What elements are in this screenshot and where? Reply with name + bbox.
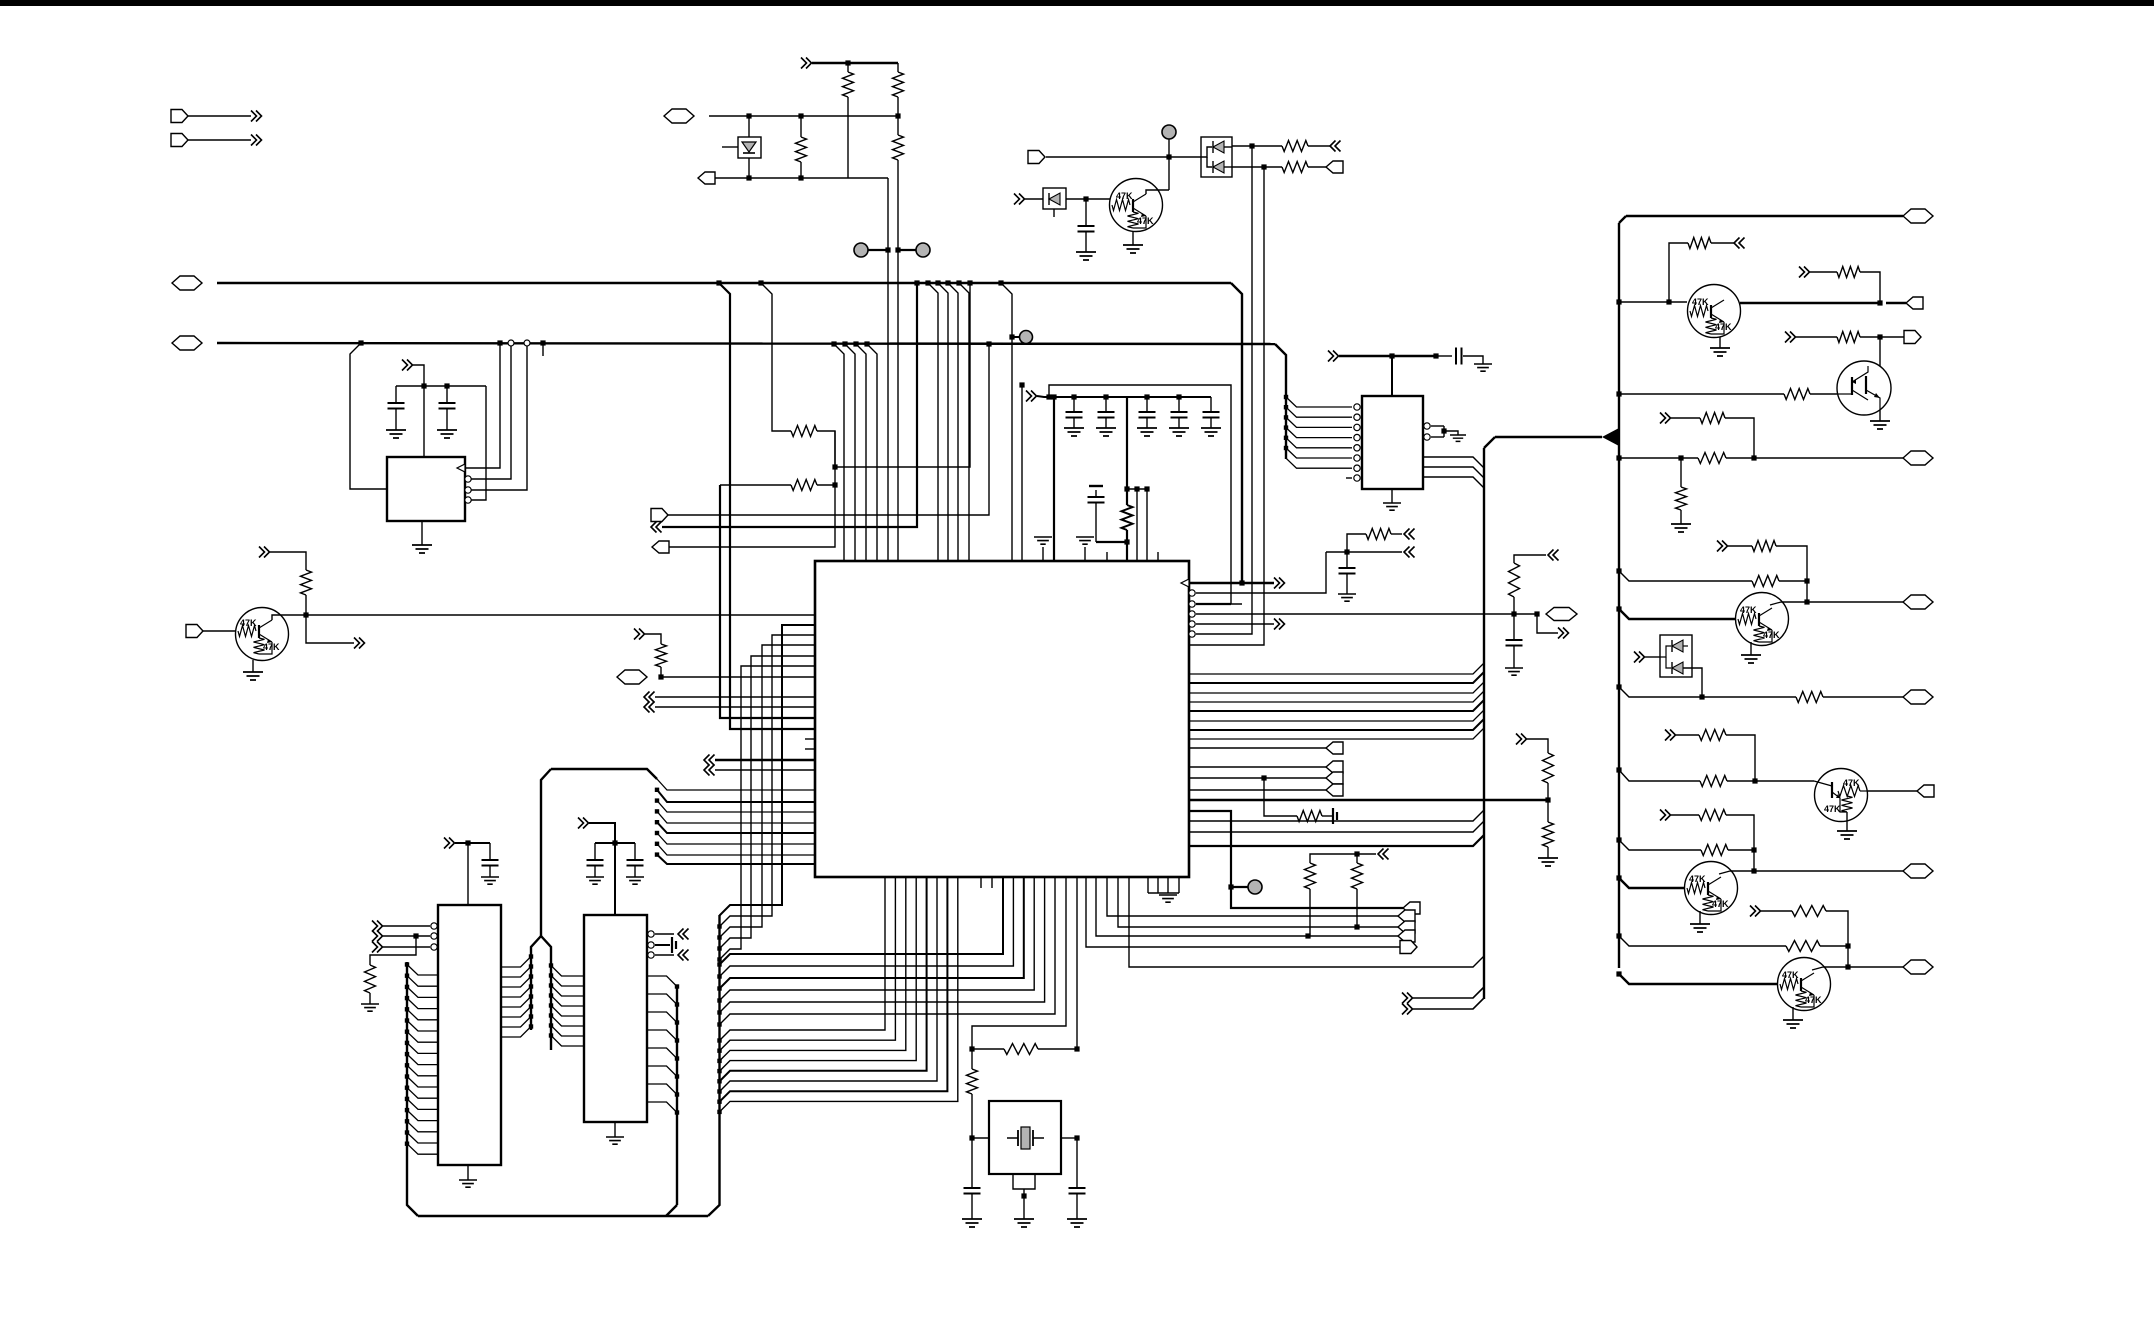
resistor R7 pullup — [259, 547, 270, 558]
connector K8 — [1398, 930, 1415, 942]
connector J16 — [678, 950, 689, 961]
thick link y437 — [1495, 436, 1602, 438]
wire VBAT drop to U3 area — [1231, 283, 1242, 583]
resistor R18 — [370, 936, 416, 965]
wire to chevron — [1537, 614, 1558, 633]
resistor Q5 top — [1717, 541, 1728, 552]
svg-text:47K: 47K — [1824, 804, 1841, 814]
data bus Y split — [541, 769, 551, 936]
sub rail y489 — [1127, 488, 1147, 490]
wire y846 thick to bus — [1189, 835, 1484, 846]
resistor R21 — [1785, 332, 1796, 343]
via TP2 — [916, 243, 930, 257]
top border bar — [0, 0, 2154, 6]
resistor Q5 branch — [1616, 568, 1621, 573]
U1 clock pin — [1181, 579, 1189, 587]
bus 719 vertical — [708, 915, 720, 1216]
svg-text:47K: 47K — [240, 618, 257, 628]
wire row y467 — [832, 464, 837, 469]
via TP4 — [1231, 886, 1248, 888]
resistor Q6 branch base — [1616, 767, 1621, 772]
wire bubble y624 — [1189, 621, 1195, 627]
capacitor C15 — [1456, 348, 1462, 365]
bus stub chevrons — [1402, 993, 1413, 1004]
bus 1484 — [1483, 448, 1485, 999]
wire risers x1137 x1147 — [1136, 489, 1138, 561]
resistor Q7 branch — [1616, 837, 1621, 842]
diode pair D2 box — [1201, 137, 1232, 177]
capacitor C3 — [446, 386, 448, 403]
transistor Q7 — [1616, 875, 1621, 880]
resistor R20 — [1799, 267, 1810, 278]
wire Q1 collector to U1 — [306, 614, 814, 616]
U4 right pin bundle — [501, 957, 531, 968]
IC U4 — [438, 905, 501, 1165]
wire U1 pin y749 stub — [805, 748, 814, 750]
crystal case pin — [1013, 1174, 1035, 1189]
pullup pair rail — [1378, 849, 1389, 860]
wire y947 — [1086, 877, 1400, 947]
capacitor C11 — [1076, 1138, 1078, 1188]
wire riser A — [716, 280, 721, 285]
connector K1 — [1189, 747, 1326, 749]
wire RC y552 — [1326, 551, 1402, 553]
connector P2 — [171, 134, 188, 147]
wire bubble y604 thick — [1189, 601, 1195, 607]
wire y821 to bus — [1189, 810, 1484, 821]
wire U1 pin y739 stub — [805, 738, 814, 740]
net VBAT wire — [172, 276, 202, 290]
via TP3 — [1162, 125, 1176, 139]
wire pin y645 — [1189, 644, 1254, 646]
U3 power rail — [1328, 351, 1339, 362]
resistor R23 — [1347, 534, 1366, 552]
U3 left pin fan from bus — [1284, 395, 1288, 399]
U3 lower right pins to bus — [1423, 457, 1484, 468]
svg-text:47K: 47K — [1740, 605, 1757, 615]
cap row outline wire — [1049, 385, 1242, 604]
U3 right pins to ground — [1424, 423, 1430, 429]
wire y916 — [1107, 877, 1398, 916]
U3 stub pin — [1346, 477, 1352, 479]
wire Q7 collector — [1719, 871, 1730, 874]
resistor R26 pulldown — [1680, 458, 1682, 487]
resistor R8 — [791, 426, 817, 437]
wire bottom bundle group A — [720, 877, 886, 1041]
svg-text:47K: 47K — [1843, 778, 1860, 788]
resistor Q6 top — [1665, 730, 1676, 741]
transistor Q6 — [1815, 769, 1868, 822]
resistor R25 — [1660, 413, 1671, 424]
diode D1 box — [748, 116, 750, 178]
wire J11 — [644, 692, 655, 703]
wire D4 out — [1683, 668, 1702, 697]
power rail chevron — [801, 58, 812, 69]
resistor R1 — [845, 60, 850, 65]
capacitor C2 — [395, 386, 397, 403]
wire U1 left pin bundle — [720, 625, 815, 916]
wire y967 long to bus — [1129, 877, 1484, 967]
rail tap 2 — [672, 937, 676, 953]
resistor Q8 branch — [1616, 933, 1621, 938]
wire D2a to U1 — [1242, 146, 1252, 634]
U5 left pin bundle — [551, 966, 584, 977]
net VDD wire — [172, 336, 202, 350]
ground mid 2 — [1084, 547, 1086, 561]
wire net to U2 left — [358, 340, 363, 345]
U5 right pin bundle — [647, 976, 677, 987]
wire bus fan to U1 left pins — [657, 779, 814, 790]
crystal Y1 — [989, 1101, 1061, 1174]
wire Q3 collector riser — [1666, 299, 1671, 304]
wire U1 right bus group — [1189, 663, 1484, 674]
ground U3 — [1391, 489, 1393, 503]
connector K9 — [1400, 941, 1417, 954]
capacitor C7 — [1176, 394, 1181, 399]
resistor R6 — [1232, 166, 1282, 168]
wire J14 — [704, 765, 715, 776]
resistor R12 divider top — [1516, 734, 1527, 745]
wire XTAL2 — [1076, 877, 1078, 1049]
cap row chevron — [1026, 391, 1037, 402]
transistor Q5 — [1616, 606, 1621, 611]
IC U5 — [584, 915, 647, 1122]
capacitor C5 — [1103, 394, 1108, 399]
ground U5 — [614, 1122, 616, 1137]
capacitor C14 — [634, 843, 636, 860]
wire branch chevron — [306, 615, 354, 643]
transistor Q4 pnp — [1616, 391, 1621, 396]
wire VCC riser 1 — [1053, 397, 1055, 561]
connector out top oval — [1626, 215, 1903, 217]
connector K6 — [1398, 910, 1415, 922]
wire VCC riser 2 — [1126, 397, 1128, 505]
connector J7 wire — [652, 541, 669, 553]
resistor R2 — [897, 63, 899, 72]
IC U2 — [387, 457, 465, 521]
RAM bus top rail — [551, 769, 657, 779]
connector P5 — [1028, 151, 1045, 164]
resistor R22 branch y697 — [1616, 684, 1621, 689]
resistor R9 — [720, 484, 791, 486]
wire D2b to U1 — [1254, 167, 1264, 645]
bus drop to U3 fan — [1275, 344, 1286, 459]
resistor R17 — [971, 1049, 973, 1069]
capacitor C9 — [1095, 490, 1097, 497]
capacitor C1 — [1085, 199, 1087, 226]
wire U3 vcc pin — [1391, 356, 1393, 396]
wire J9 — [651, 522, 662, 533]
U2 clock pin — [457, 464, 465, 472]
bottom bus — [418, 1215, 708, 1217]
transistor Q3 — [1616, 299, 1621, 304]
wire riser B — [758, 280, 763, 285]
wire y800 thick to divider — [1189, 799, 1548, 801]
resistor Q7 top — [1660, 810, 1671, 821]
ground U1 pins — [1147, 877, 1149, 893]
connector P8 wire — [651, 509, 668, 522]
capacitor C8 — [1210, 397, 1212, 412]
wire riser x1022 — [1021, 385, 1023, 561]
transistor Q2 — [1110, 179, 1163, 232]
ground Q5 — [1750, 642, 1752, 655]
ground Q8 — [1792, 1007, 1794, 1020]
connector K4 — [1189, 789, 1326, 791]
transistor Q1 — [236, 608, 289, 661]
capacitor C6 — [1144, 394, 1149, 399]
capacitor C16 — [1513, 614, 1515, 640]
ground Q1 — [252, 660, 254, 672]
connector out right — [1880, 336, 1904, 338]
U1 bottom stub pins — [980, 877, 982, 888]
connector K3 — [1189, 777, 1326, 779]
ground mid 1 — [1042, 547, 1044, 561]
wire riser VBAT end — [1001, 283, 1012, 561]
U5 right control pins — [648, 931, 654, 937]
U4 control pins — [372, 921, 383, 932]
wire Q6 output — [1868, 790, 1917, 792]
ground Q4 — [1879, 410, 1881, 421]
connector K2 — [1189, 766, 1326, 768]
IC U1 — [815, 561, 1189, 877]
diode pair D4 box — [1634, 652, 1645, 663]
wire y927 — [1118, 877, 1398, 927]
wire y832 to bus — [1189, 821, 1484, 832]
ground U4 — [467, 1165, 469, 1180]
pin stubs U1 top — [1106, 552, 1108, 561]
zener chevron — [1014, 194, 1025, 205]
U2 pin wires to net — [465, 476, 471, 482]
wire riser C — [720, 485, 814, 718]
wire y936 — [1096, 877, 1398, 936]
wire zener to Q2 — [1066, 198, 1110, 200]
wire U2 pin to rail — [540, 340, 545, 345]
connector P6 — [186, 625, 203, 638]
connector K7 — [1398, 921, 1415, 933]
wire Q3 output — [1740, 302, 1880, 304]
svg-text:47K: 47K — [1782, 970, 1799, 980]
resistor R15 — [1352, 863, 1363, 889]
wire risers from VDD net — [831, 341, 836, 346]
capacitor C13 — [594, 843, 596, 860]
U4 left pin bundle — [407, 965, 438, 976]
ground Q3 — [1719, 337, 1721, 348]
bus Y wedge — [1602, 428, 1619, 446]
U4 power pin — [444, 838, 455, 849]
U5 power pin — [578, 818, 589, 829]
resistor R5 — [1232, 145, 1282, 147]
supply chevron — [402, 360, 413, 371]
left RAM bus — [407, 962, 418, 1216]
zener D3 box — [1043, 188, 1066, 209]
transistor Q8 — [1616, 971, 1621, 976]
wire bottom bundle group B — [720, 877, 1004, 965]
resistor R13 divider bottom — [1547, 800, 1549, 822]
connector P10 with pullup R10 — [634, 629, 645, 640]
capacitor C12 — [489, 843, 491, 860]
ground — [1132, 231, 1134, 245]
wire Q5 collector — [1770, 602, 1781, 605]
ground — [1076, 252, 1096, 260]
wire J12 — [644, 702, 655, 713]
wire XTAL1 — [972, 877, 1066, 1049]
ground Q7 — [1699, 911, 1701, 924]
wire Q8 collector — [1812, 967, 1823, 970]
wire J17 — [1548, 550, 1559, 561]
capacitor C4 — [1071, 394, 1076, 399]
svg-text:47K: 47K — [1689, 874, 1706, 884]
ground Q6 — [1846, 812, 1848, 831]
resistor Q8 top — [1750, 906, 1761, 917]
wire Q4 emitter — [1879, 337, 1881, 366]
connector J3 — [664, 109, 694, 123]
wire bubble y614 long — [1189, 611, 1195, 617]
wire y614 to connector — [1514, 613, 1537, 615]
wire y811 via path — [1189, 811, 1403, 908]
svg-text:47K: 47K — [1692, 297, 1709, 307]
wire risers from VBAT net — [925, 280, 930, 285]
svg-text:47K: 47K — [1116, 191, 1133, 201]
resistor R24 branch — [1616, 455, 1621, 460]
wire bubble y593 to RC — [1189, 590, 1195, 596]
resistor R16 — [969, 1046, 974, 1051]
wire bubble y634 — [1189, 631, 1195, 637]
resistor R11 to rail tap — [1264, 778, 1297, 816]
via TP5 — [1009, 334, 1014, 339]
resistor R4 — [798, 113, 803, 118]
ground U2 — [421, 521, 423, 545]
resistor R3 — [895, 113, 900, 118]
wire J13 thick — [704, 755, 715, 766]
connector K5 — [1403, 902, 1420, 914]
connector P1 — [171, 110, 188, 123]
bus 1619 — [1618, 223, 1620, 968]
chip B right bus — [676, 985, 678, 1205]
IC U3 — [1362, 396, 1423, 489]
capacitor C17 — [1346, 552, 1348, 568]
wire to via row — [887, 178, 889, 561]
via TP1 — [854, 243, 868, 257]
resistor R14 — [1305, 863, 1316, 889]
connector J15 — [678, 929, 689, 940]
cap rail wire — [396, 385, 486, 387]
resistor R19 — [1509, 563, 1520, 597]
connector J4 — [698, 172, 715, 184]
capacitor C10 — [971, 1138, 973, 1188]
